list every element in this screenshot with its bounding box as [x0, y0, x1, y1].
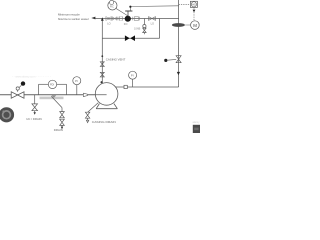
svg-text:- - www.alamy.com - - - - - -: - - www.alamy.com - - - - - - - - - — [12, 75, 51, 79]
svg-text:flow line to suction vessel: flow line to suction vessel — [58, 17, 89, 21]
svg-text:UC / DRAIN: UC / DRAIN — [26, 117, 42, 121]
svg-text:FO: FO — [124, 22, 128, 26]
svg-text:10NB: 10NB — [134, 27, 141, 30]
svg-text:FIC: FIC — [110, 5, 114, 8]
svg-text:HS: HS — [192, 3, 196, 7]
svg-text:DRAIN: DRAIN — [54, 128, 63, 132]
svg-text:PI: PI — [75, 79, 78, 83]
svg-text:PDI: PDI — [50, 84, 54, 87]
svg-text:CASING VENT: CASING VENT — [106, 57, 126, 61]
svg-text:alamy: alamy — [193, 120, 201, 124]
svg-text:PI: PI — [131, 74, 134, 78]
svg-text:LO: LO — [107, 21, 110, 25]
svg-text:CASING DRAIN: CASING DRAIN — [92, 120, 116, 124]
svg-text:M: M — [193, 23, 197, 28]
svg-text:LO: LO — [151, 21, 154, 25]
